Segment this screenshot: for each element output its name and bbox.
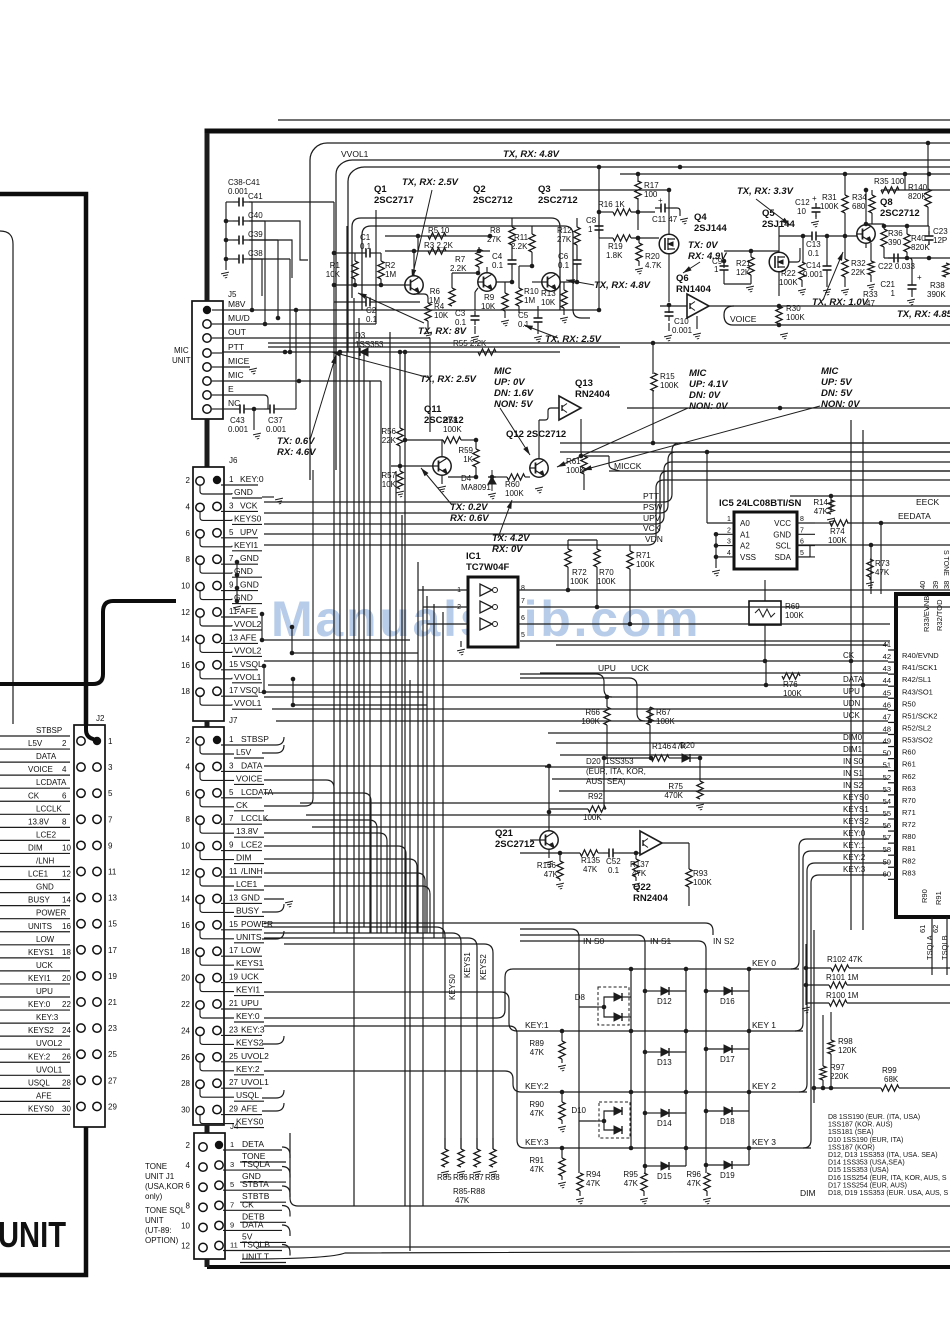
- ground: [457, 1171, 466, 1177]
- ground: [576, 1198, 585, 1204]
- svg-text:IN S2: IN S2: [713, 936, 735, 946]
- wire R67 bottom: [649, 725, 651, 758]
- svg-text:1K: 1K: [463, 455, 473, 464]
- svg-text:TX: 4.2V: TX: 4.2V: [492, 533, 530, 544]
- junction: [849, 659, 854, 664]
- svg-text:TX, RX: 2.5V: TX, RX: 2.5V: [402, 177, 459, 188]
- IC1 inverter 1: [480, 584, 498, 596]
- svg-text:MU/D: MU/D: [228, 313, 250, 323]
- junction: [566, 588, 571, 593]
- svg-text:10: 10: [181, 842, 190, 851]
- svg-text:7: 7: [229, 814, 234, 823]
- svg-text:9: 9: [108, 841, 113, 850]
- svg-text:(USA,KOR: (USA,KOR: [145, 1182, 184, 1191]
- wire IN S0 vertical: [520, 929, 579, 1173]
- J7 pin 3 DATA: [213, 762, 221, 770]
- resistor R20 4.7K: [636, 243, 642, 261]
- annotation arrow: [500, 408, 530, 455]
- svg-text:820K: 820K: [908, 192, 927, 201]
- svg-text:17: 17: [229, 946, 238, 955]
- svg-text:10K: 10K: [326, 270, 341, 279]
- svg-text:R57: R57: [381, 471, 396, 480]
- svg-text:TX, RX: 2.5V: TX, RX: 2.5V: [420, 374, 477, 385]
- svg-text:POWER: POWER: [36, 909, 66, 918]
- svg-text:12K: 12K: [736, 268, 751, 277]
- svg-text:DATA: DATA: [843, 675, 864, 684]
- junction: [684, 967, 689, 972]
- diode D10 lower: [614, 1126, 622, 1134]
- J7 pin 7 LCCLK: [213, 815, 221, 823]
- svg-text:SDA: SDA: [775, 553, 792, 562]
- svg-text:8: 8: [62, 817, 67, 826]
- J7 pin 10 DIM: [196, 842, 204, 850]
- svg-text:TSQLA: TSQLA: [925, 935, 934, 960]
- svg-text:DATA: DATA: [242, 1219, 264, 1229]
- transistor Q12: [530, 459, 548, 477]
- svg-text:2: 2: [62, 739, 67, 748]
- svg-text:GND: GND: [240, 580, 259, 590]
- svg-text:LCE2: LCE2: [36, 830, 57, 839]
- junction: [704, 989, 709, 994]
- svg-text:R94: R94: [586, 1170, 601, 1179]
- svg-text:0.001: 0.001: [803, 270, 824, 279]
- wire R97 stub: [822, 1015, 824, 1066]
- J6 pin 10 GND: [196, 582, 204, 590]
- svg-text:7: 7: [521, 598, 525, 605]
- svg-text:100K: 100K: [570, 577, 589, 586]
- J4 pin 1 DETA: [215, 1141, 223, 1149]
- svg-text:LCE2: LCE2: [241, 840, 263, 850]
- svg-text:KEYS2: KEYS2: [28, 1026, 54, 1035]
- svg-text:R6: R6: [430, 287, 441, 296]
- wire vertical bus: [417, 562, 419, 933]
- svg-text:R91: R91: [529, 1156, 544, 1165]
- J7 pin 23 KEY:3: [213, 1026, 221, 1034]
- svg-text:2.2K: 2.2K: [511, 242, 528, 251]
- wire vertical bus: [333, 302, 335, 924]
- junction: [777, 323, 782, 328]
- wire rail 766: [264, 765, 549, 767]
- svg-text:KEY:3: KEY:3: [36, 1013, 59, 1022]
- ground: [556, 883, 565, 889]
- svg-text:D14 1SS353 (USA,SEA): D14 1SS353 (USA,SEA): [828, 1160, 905, 1167]
- junction: [560, 1090, 565, 1095]
- svg-text:0.001: 0.001: [228, 187, 249, 196]
- svg-text:100K: 100K: [660, 381, 679, 390]
- diode D20: [682, 754, 690, 762]
- capacitor C11 47: [655, 204, 671, 213]
- resistor R8 27K: [509, 227, 515, 245]
- J4 pin 11 TSQLB: [215, 1241, 223, 1249]
- svg-text:D18, D19 1SS353 (EUR. USA, AUS: D18, D19 1SS353 (EUR. USA, AUS, S: [828, 1190, 949, 1197]
- svg-text:680: 680: [852, 202, 866, 211]
- J6 GND pin2 ground: [262, 496, 274, 498]
- J4 pin 10 5V: [199, 1223, 207, 1231]
- wire signal bus: [264, 452, 950, 513]
- svg-text:J7: J7: [229, 716, 238, 725]
- svg-text:15: 15: [229, 920, 238, 929]
- junction: [398, 350, 403, 355]
- svg-text:VVOL1: VVOL1: [341, 149, 369, 159]
- wire MICE row: [222, 366, 250, 368]
- resistor R92 100K: [588, 806, 606, 812]
- wire Q22 out: [662, 842, 689, 844]
- svg-text:R87: R87: [469, 1173, 484, 1182]
- J6 pin 3 VCK: [213, 502, 221, 510]
- svg-text:1: 1: [714, 265, 719, 274]
- svg-text:VVOL2: VVOL2: [234, 619, 262, 629]
- svg-text:3: 3: [229, 761, 234, 770]
- resistor R135 47K: [580, 850, 598, 856]
- J7 pin 24 KEYS2: [196, 1027, 204, 1035]
- J4 pin 6 STBTB: [199, 1183, 207, 1191]
- junction: [476, 271, 481, 276]
- svg-text:R38: R38: [930, 281, 945, 290]
- svg-text:D12: D12: [657, 997, 672, 1006]
- svg-text:0.1: 0.1: [455, 318, 467, 327]
- junction: [398, 464, 403, 469]
- svg-text:KEY:0: KEY:0: [843, 829, 866, 838]
- junction: [353, 283, 358, 288]
- junction: [297, 379, 302, 384]
- svg-text:R82: R82: [902, 856, 916, 865]
- ground: [680, 218, 689, 224]
- svg-text:KEYS1: KEYS1: [463, 952, 472, 978]
- svg-text:56: 56: [883, 821, 891, 830]
- resistor R55 2.2K: [478, 349, 496, 355]
- svg-text:OPTION): OPTION): [145, 1236, 179, 1245]
- svg-text:UNIT T: UNIT T: [242, 1252, 269, 1262]
- svg-text:38: 38: [942, 581, 950, 589]
- resistor R12 27K: [574, 227, 580, 245]
- resistor R6 1M: [449, 288, 455, 306]
- J7 pin 16 UNITS: [196, 922, 204, 930]
- ground: [866, 582, 875, 588]
- svg-text:R1: R1: [330, 261, 341, 270]
- svg-text:KEY:0: KEY:0: [28, 1000, 51, 1009]
- svg-text:R137: R137: [630, 860, 650, 869]
- resistor R10 1M: [516, 288, 522, 306]
- wire rail 641: [520, 640, 890, 642]
- capacitor C41: [233, 198, 249, 207]
- svg-text:M8V: M8V: [228, 299, 246, 309]
- svg-text:DATA: DATA: [241, 760, 263, 770]
- svg-text:2SC2712: 2SC2712: [473, 195, 513, 206]
- svg-text:390: 390: [888, 238, 902, 247]
- wire IC1 out2: [518, 606, 950, 608]
- connector J2: [74, 725, 105, 1127]
- svg-text:UNITS: UNITS: [236, 932, 262, 942]
- svg-text:R75: R75: [668, 782, 683, 791]
- J6 pin 5 UPV: [213, 529, 221, 537]
- wire IC1 in1: [418, 589, 468, 591]
- svg-text:KEY:3: KEY:3: [241, 1024, 265, 1034]
- svg-text:AUS, SEA): AUS, SEA): [586, 777, 626, 786]
- wire signal bus: [264, 480, 950, 545]
- J2 pin 19: [77, 972, 85, 980]
- svg-text:VOICE: VOICE: [28, 765, 53, 774]
- J7 pin 28 USQL: [196, 1080, 204, 1088]
- svg-text:R41/SCK1: R41/SCK1: [902, 663, 937, 672]
- junction: [905, 224, 910, 229]
- svg-text:/LNH: /LNH: [36, 857, 54, 866]
- resistor R67 100K: [647, 707, 653, 725]
- J7 pin 9 LCE2: [213, 841, 221, 849]
- svg-text:LCCLK: LCCLK: [36, 804, 62, 813]
- svg-text:R16 1K: R16 1K: [598, 200, 625, 209]
- wire vertical bus: [353, 298, 355, 1206]
- capacitor C3: [471, 311, 480, 325]
- svg-text:220K: 220K: [830, 1072, 849, 1081]
- wire vertical bus: [433, 604, 435, 938]
- resistor R22 100K: [799, 262, 805, 280]
- wire vertical bus: [409, 680, 411, 1251]
- svg-text:100K: 100K: [820, 202, 839, 211]
- thick wire below J4: [205, 1259, 210, 1267]
- wire vertical bus: [401, 515, 403, 933]
- IC IC5 box: [734, 512, 797, 569]
- svg-text:R102 47K: R102 47K: [827, 955, 863, 964]
- resistor R57 10K: [397, 471, 403, 489]
- ground: [534, 336, 543, 342]
- wire IC1 in3: [427, 623, 468, 625]
- svg-text:R60: R60: [505, 480, 520, 489]
- wire vertical bus: [442, 612, 444, 938]
- resistor R36 390: [881, 229, 887, 247]
- wire Q21 col: [603, 758, 605, 809]
- junction: [252, 407, 257, 412]
- ground: [746, 286, 755, 292]
- annotation arrow: [358, 293, 424, 323]
- wire KEYS1 long row: [264, 965, 448, 985]
- svg-text:100K: 100K: [597, 577, 616, 586]
- svg-text:KEY:1: KEY:1: [525, 1020, 549, 1030]
- junction: [332, 251, 337, 256]
- diode D13: [661, 1048, 669, 1056]
- junction: [804, 966, 809, 971]
- svg-text:KEYI1: KEYI1: [236, 985, 260, 995]
- resistor R97 220K: [820, 1066, 826, 1080]
- D10 internal wires: [604, 1111, 614, 1121]
- svg-text:7: 7: [229, 554, 234, 563]
- wire x905: [904, 174, 906, 190]
- ground: [233, 606, 242, 612]
- svg-text:R97: R97: [830, 1063, 845, 1072]
- svg-text:VVOL1: VVOL1: [234, 698, 262, 708]
- svg-text:R32: R32: [851, 259, 866, 268]
- wire signal bus: [264, 462, 950, 524]
- junction: [477, 249, 482, 254]
- wire SCL vert: [870, 545, 872, 594]
- svg-text:17: 17: [229, 686, 238, 695]
- junction: [294, 308, 299, 313]
- wire 1088 rail: [814, 1087, 881, 1089]
- svg-text:6: 6: [186, 789, 191, 798]
- annotation arrow: [310, 355, 336, 440]
- junction: [260, 638, 265, 643]
- wire R135 row: [520, 852, 580, 854]
- wire R69 bottom: [764, 625, 766, 661]
- svg-text:Q13: Q13: [575, 378, 593, 389]
- svg-text:UNIT J1: UNIT J1: [145, 1172, 175, 1181]
- connector J7: [193, 727, 224, 1125]
- ground: [489, 1171, 498, 1177]
- svg-text:IN S2: IN S2: [843, 781, 864, 790]
- svg-text:MIC: MIC: [494, 366, 512, 377]
- resistor R11 2.2K: [529, 234, 535, 252]
- svg-text:GND: GND: [773, 530, 791, 539]
- svg-text:40: 40: [918, 581, 927, 589]
- annotation arrow: [583, 406, 820, 470]
- svg-text:PTT: PTT: [228, 342, 244, 352]
- wire IC pin row: [268, 684, 888, 686]
- wire R140 top: [927, 143, 929, 189]
- junction: [636, 236, 641, 241]
- junction: [595, 605, 600, 610]
- J2 pin 9: [77, 841, 85, 849]
- svg-text:52: 52: [883, 773, 891, 782]
- svg-text:20: 20: [62, 974, 71, 983]
- svg-text:C41: C41: [248, 192, 263, 201]
- svg-text:UP: 5V: UP: 5V: [821, 377, 852, 388]
- wire 258 rail: [884, 257, 950, 259]
- svg-text:2: 2: [186, 1141, 191, 1150]
- resistor R75 470K: [697, 781, 703, 799]
- junction: [861, 683, 866, 688]
- junction: [629, 1146, 634, 1151]
- svg-text:C22 0.033: C22 0.033: [878, 262, 915, 271]
- svg-text:100K: 100K: [505, 489, 524, 498]
- wire OUT row: [222, 337, 430, 339]
- svg-text:58: 58: [883, 845, 891, 854]
- svg-text:Q6: Q6: [676, 273, 689, 284]
- J2 pin 1: [77, 737, 85, 745]
- resistor R4 10K: [425, 303, 431, 321]
- svg-text:7: 7: [800, 527, 804, 534]
- wire R90 stub: [561, 1092, 563, 1102]
- svg-text:5: 5: [229, 528, 234, 537]
- junction: [629, 967, 634, 972]
- ground: [545, 861, 554, 867]
- svg-text:R70: R70: [902, 796, 916, 805]
- J6 pin 7 GND: [213, 555, 221, 563]
- svg-text:AFE: AFE: [241, 1104, 258, 1114]
- svg-text:R73: R73: [875, 559, 890, 568]
- wire J7 row bend: [264, 833, 387, 933]
- svg-text:KEY:0: KEY:0: [240, 474, 264, 484]
- svg-text:10: 10: [62, 843, 71, 852]
- svg-text:13: 13: [108, 894, 117, 903]
- svg-text:KEY:2: KEY:2: [236, 1064, 260, 1074]
- svg-text:8: 8: [521, 585, 525, 592]
- J4 pin 8 DETB: [199, 1203, 207, 1211]
- svg-text:3: 3: [727, 539, 731, 546]
- junction: [778, 406, 783, 411]
- svg-text:47K: 47K: [687, 1179, 702, 1188]
- svg-text:R40: R40: [911, 234, 926, 243]
- svg-text:D16 1SS254 (EUR, ITA, KOR, AUS: D16 1SS254 (EUR, ITA, KOR, AUS, S: [828, 1175, 947, 1182]
- capacitor C39: [233, 236, 249, 245]
- ground: [560, 317, 569, 323]
- svg-text:12: 12: [181, 608, 190, 617]
- svg-text:18: 18: [62, 948, 71, 957]
- svg-text:R42/SL1: R42/SL1: [902, 675, 931, 684]
- svg-text:5: 5: [229, 788, 234, 797]
- svg-text:LCE1: LCE1: [236, 879, 258, 889]
- resistor R35 100: [881, 187, 899, 193]
- svg-text:23: 23: [108, 1024, 117, 1033]
- J4 pin 12 UNIT T: [199, 1243, 207, 1251]
- svg-text:8: 8: [186, 555, 191, 564]
- wire x800-811 matrix sources: [805, 944, 807, 1005]
- svg-text:0.001: 0.001: [672, 326, 693, 335]
- J7 pin 14 BUSY: [196, 895, 204, 903]
- junction: [291, 677, 296, 682]
- svg-text:DIM: DIM: [28, 843, 43, 852]
- svg-text:19: 19: [108, 972, 117, 981]
- J7 pin 29 AFE: [213, 1105, 221, 1113]
- svg-text:16: 16: [181, 661, 190, 670]
- wire IC pin row: [556, 644, 888, 646]
- svg-text:57: 57: [883, 833, 891, 842]
- resistor R13 10K: [561, 290, 567, 308]
- wire rail 408: [627, 407, 950, 409]
- wire J7 row bend: [264, 780, 334, 933]
- svg-text:D8: D8: [575, 993, 586, 1002]
- svg-text:R60: R60: [902, 748, 916, 757]
- wire R15 top: [652, 343, 654, 374]
- resistor R40 820K: [904, 234, 910, 252]
- capacitor C8: [595, 221, 604, 235]
- capacitor C4: [508, 255, 517, 269]
- junction: [605, 695, 610, 700]
- wire R91 stub: [561, 1148, 563, 1158]
- resistor R89 47K: [559, 1041, 565, 1059]
- svg-text:100K: 100K: [785, 611, 804, 620]
- svg-text:VSS: VSS: [740, 553, 756, 562]
- wire rail D: [620, 173, 950, 175]
- svg-text:VSQL: VSQL: [240, 685, 263, 695]
- svg-text:47K: 47K: [544, 870, 559, 879]
- wire IC pin row: [803, 875, 888, 1148]
- svg-text:R59: R59: [458, 446, 473, 455]
- wire x376: [375, 210, 377, 324]
- IC IC1 box: [468, 577, 518, 647]
- svg-text:R101 1M: R101 1M: [826, 973, 859, 982]
- svg-text:10: 10: [181, 1221, 190, 1230]
- svg-text:Q1: Q1: [374, 184, 387, 195]
- svg-text:BUSY: BUSY: [28, 896, 50, 905]
- J6 pin 1 KEY:0: [213, 476, 221, 484]
- svg-text:14: 14: [62, 896, 71, 905]
- resistor R100 1M: [829, 1000, 847, 1006]
- svg-text:10: 10: [181, 582, 190, 591]
- svg-text:59: 59: [883, 857, 891, 866]
- svg-text:12: 12: [181, 868, 190, 877]
- svg-text:C5: C5: [518, 311, 529, 320]
- left unit inner wire: [0, 231, 13, 724]
- junction: [235, 560, 240, 565]
- resistor R136 47K: [557, 861, 563, 879]
- diode D15: [661, 1162, 669, 1170]
- svg-text:47K: 47K: [583, 865, 598, 874]
- svg-text:DIM0: DIM0: [843, 733, 863, 742]
- svg-text:VVOL2: VVOL2: [234, 645, 262, 655]
- junction: [643, 989, 648, 994]
- svg-text:24: 24: [62, 1026, 71, 1035]
- svg-text:11: 11: [108, 868, 117, 877]
- svg-text:KEYS2: KEYS2: [479, 954, 488, 980]
